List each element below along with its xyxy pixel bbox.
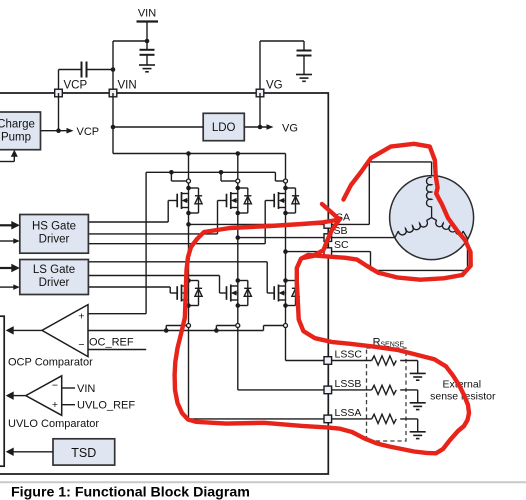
wire HS gate B (88, 233, 217, 235)
motor winding C (right coil) (436, 221, 463, 235)
wire LSSB route (237, 328, 239, 390)
wire phase B HS source to LS drain (237, 213, 239, 281)
dashed box (external sense resistors) (367, 348, 407, 441)
wire HS sense branch C (274, 172, 276, 181)
pin bubble GHC (284, 179, 288, 183)
node VG output junction (258, 125, 263, 130)
wire Q4 source down (188, 306, 190, 324)
svg-text:LS Gate: LS Gate (33, 264, 75, 276)
wire SB to pin (238, 237, 328, 239)
wire GHA bubble to drain (188, 183, 190, 188)
wire phase C HS source to LS drain (285, 213, 287, 281)
svg-text:−: − (78, 339, 84, 351)
wire SA to motor (332, 223, 370, 225)
wire phase A HS source to LS drain (188, 213, 190, 281)
block U-LDO LDO (203, 113, 244, 140)
svg-text:HS Gate: HS Gate (32, 221, 76, 233)
wire VG top horizontal (260, 40, 304, 42)
arrow OCP output (6, 326, 14, 335)
svg-text:OC_REF: OC_REF (89, 336, 134, 348)
svg-text:VCP: VCP (77, 126, 100, 138)
node Q3 drain (283, 186, 288, 191)
arrow VG net (267, 124, 274, 130)
wire TSD output (13, 451, 53, 453)
block U-CP Charge Pump (0, 112, 41, 150)
node Q2 drain (236, 186, 241, 191)
red annotation arrowhead barbs (303, 204, 340, 258)
svg-text:VCP: VCP (64, 80, 88, 92)
wire HS gate C (88, 243, 265, 245)
arrow VCP net (67, 128, 74, 134)
wire LS gate B (88, 275, 219, 277)
svg-text:UVLO_REF: UVLO_REF (77, 399, 135, 411)
node drain bus phase A (186, 151, 191, 156)
pin bubble GLC (284, 324, 288, 328)
pin LSSA (324, 415, 332, 423)
ground (VG cap) (296, 74, 312, 76)
node VCP output junction (56, 128, 61, 133)
svg-text:VIN: VIN (118, 80, 137, 92)
svg-text:OCP Comparator: OCP Comparator (8, 356, 93, 368)
wire UVLO VIN stub (62, 387, 75, 389)
wire VIN to LDO input (113, 126, 203, 128)
svg-text:LSSA: LSSA (335, 407, 362, 419)
red annotation main loop (freehand) (175, 144, 471, 454)
svg-text:Driver: Driver (39, 277, 70, 289)
transistor Q5 (LS phase B) with body diode (227, 281, 252, 306)
node HS sense tap B (219, 170, 224, 175)
node SA tap (186, 222, 191, 227)
svg-text:+: + (78, 311, 84, 323)
wire LSSC route (285, 328, 287, 361)
wire Q5 source down (237, 306, 239, 324)
pin bubble GLA (187, 324, 191, 328)
wire HS driver input 2 (0, 240, 14, 242)
svg-text:+: + (52, 399, 58, 411)
wire OC_REF stub (88, 349, 146, 351)
IC boundary box (clipped at left image edge) (0, 93, 328, 474)
svg-text:LSSC: LSSC (335, 349, 363, 361)
arrow LS driver input 1 (11, 264, 19, 273)
wire Q6 source down (285, 306, 287, 324)
node VIN-LDO junction (111, 125, 116, 130)
pin VIN (109, 89, 117, 97)
wire charge pump feedback from left (0, 161, 14, 163)
wire SA to pin (189, 223, 328, 225)
ground (RB) (410, 402, 426, 404)
wire VG pin up (259, 41, 261, 93)
node Q1 source (186, 211, 191, 216)
node LS sense tap B (214, 328, 219, 333)
op-amp U-OCP (OCP comparator) (42, 305, 88, 357)
wire HS sense branch A (170, 172, 172, 181)
wire VCP pin up to cap (58, 70, 60, 94)
wire VIN vertical to pin (112, 41, 114, 93)
node SB tap (236, 235, 241, 240)
pin bubble GLB (236, 324, 240, 328)
resistor RA (sense, phase A) (332, 418, 372, 420)
svg-text:LDO: LDO (212, 122, 236, 134)
svg-text:Pump: Pump (1, 132, 31, 144)
pin VCP (55, 89, 63, 97)
pin SB (324, 234, 332, 242)
wire VIN pin down (112, 93, 114, 154)
wire LS sense branch C (263, 326, 265, 331)
wire charge pump output to VCP (41, 130, 68, 132)
node Q4 drain (186, 278, 191, 283)
svg-text:UVLO Comparator: UVLO Comparator (8, 418, 99, 430)
capacitor C-VG (VG to ground) (303, 41, 305, 51)
motor winding B (left coil) (398, 221, 427, 235)
node SC tap (283, 249, 288, 254)
wire LSSA route (188, 328, 190, 419)
svg-text:Figure 1: Functional Block Dia: Figure 1: Functional Block Diagram (11, 485, 250, 500)
node VIN top junction (145, 39, 150, 44)
wire OCP+ sense rail (up and across HS) (88, 313, 146, 315)
wire VIN top horizontal (113, 40, 147, 42)
wire LS gate A (88, 286, 170, 288)
wire LS gate C (88, 261, 267, 263)
wire UVLO_REF stub (62, 404, 75, 406)
ground (RC) (410, 372, 426, 374)
pin LSSB (324, 386, 332, 394)
transistor Q4 (LS phase A) with body diode (177, 281, 202, 306)
arrow into charge pump bottom (11, 150, 18, 157)
arrow HS driver input 1 (11, 221, 19, 230)
wire SB to motor (332, 237, 395, 239)
node LS sense tap A (164, 328, 169, 333)
transistor Q3 (HS phase C) with body diode (274, 188, 299, 213)
arrow LS driver input 2 (13, 284, 19, 290)
wire LDO output to VG (244, 126, 267, 128)
ground (RA) (410, 431, 426, 433)
pin SC (324, 248, 332, 256)
svg-text:VG: VG (266, 80, 283, 92)
caption separator rule (0, 481, 526, 483)
wire VIN supply to junction (146, 22, 148, 42)
svg-text:Charge: Charge (0, 119, 35, 131)
wire drain B down (237, 154, 239, 179)
resistor RB (sense, phase B) (332, 389, 372, 391)
node Q6 source (283, 303, 288, 308)
wire LS driver input 1 (bus) (0, 267, 12, 269)
node Q3 source (283, 211, 288, 216)
transistor Q1 (HS phase A) with body diode (177, 188, 202, 213)
block U-LS LS Gate Driver (20, 260, 89, 295)
transistor Q2 (HS phase B) with body diode (227, 188, 252, 213)
motor M1 (3-phase BLDC) (390, 176, 474, 260)
svg-text:TSD: TSD (71, 446, 96, 460)
transistor Q6 (LS phase C) with body diode (274, 281, 299, 306)
arrow UVLO output (6, 391, 14, 400)
wire HS gate A (88, 221, 168, 223)
wire OCP LS sense rail (88, 330, 264, 332)
wire VCP pin down to output node (58, 93, 60, 131)
node Q4 source (186, 303, 191, 308)
op-amp U-UVLO (UVLO comparator) (26, 376, 62, 416)
svg-text:LSSB: LSSB (335, 378, 362, 390)
motor winding A (top coil) (426, 177, 431, 206)
arrow HS driver input 2 (13, 238, 19, 244)
node drain bus phase B (236, 151, 241, 156)
wire LS sense branch B (215, 326, 217, 331)
wire SC to pin (286, 251, 328, 253)
wire LS sense branch A (165, 326, 167, 331)
wire HS sense branch B (220, 172, 222, 181)
svg-text:VG: VG (282, 123, 298, 135)
svg-text:VIN: VIN (138, 8, 156, 20)
pin bubble GHA (187, 179, 191, 183)
wire VG pin down to node (259, 93, 261, 127)
wire SC to motor (332, 251, 371, 253)
node Q2 source (236, 211, 241, 216)
pin LSSC (324, 357, 332, 365)
node Q5 drain (236, 278, 241, 283)
resistor RC (sense, phase C) (332, 360, 372, 362)
svg-text:Driver: Driver (39, 234, 70, 246)
wire VIN drain bus (113, 153, 286, 155)
capacitor C-VIN (decoupling to ground) (146, 41, 148, 50)
capacitor C-VCP (VCP to VIN) (59, 69, 82, 71)
block U-HS HS Gate Driver (20, 215, 89, 254)
svg-text:VIN: VIN (77, 383, 95, 395)
block digital core (clipped at left edge) (0, 316, 4, 466)
node HS sense tap A (169, 170, 174, 175)
wire HS driver input 1 (bus) (0, 224, 12, 226)
arrow TSD output (6, 448, 14, 457)
wire GHC bubble to drain (285, 183, 287, 188)
block U-TSD TSD (53, 439, 115, 465)
wire drain A down (188, 154, 190, 179)
node Q6 drain (283, 278, 288, 283)
node Q1 drain (186, 186, 191, 191)
svg-text:−: − (52, 380, 58, 392)
VIN supply bar (137, 20, 159, 22)
pin VG (256, 89, 264, 97)
svg-text:SC: SC (334, 239, 349, 251)
ground (VIN cap) (139, 64, 155, 66)
pin bubble GHB (236, 179, 240, 183)
wire LS driver input 2 (0, 286, 14, 288)
node VCP-cap junction on VIN line (111, 67, 116, 72)
wire OCP output (13, 329, 42, 331)
pin SA (324, 221, 332, 229)
wire UVLO output (13, 395, 26, 397)
wire GHB bubble to drain (237, 183, 239, 188)
node Q5 source (236, 303, 241, 308)
